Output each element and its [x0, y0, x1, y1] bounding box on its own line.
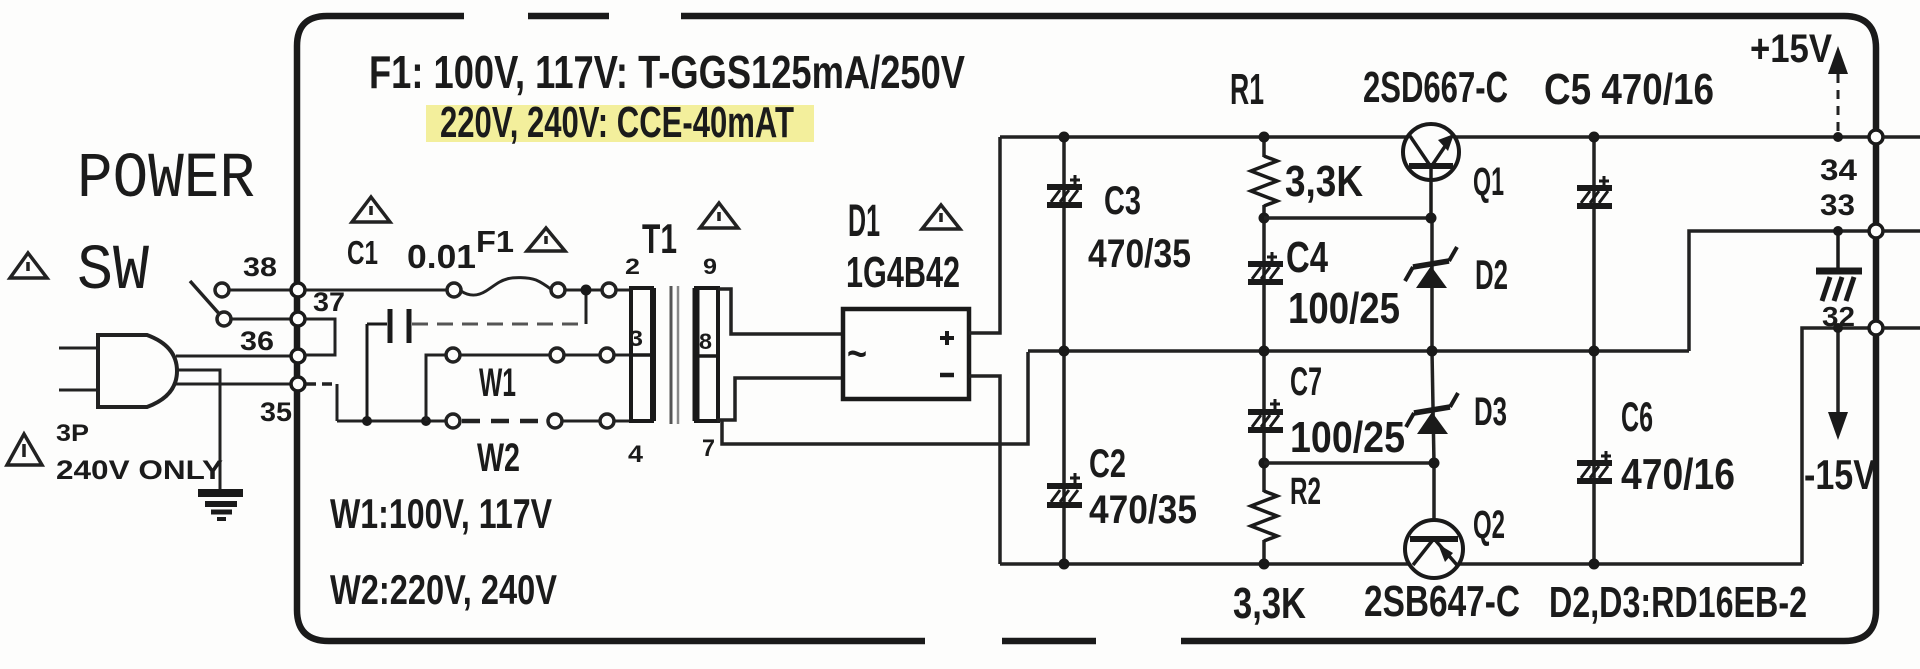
stub wire node 33 [1883, 229, 1920, 233]
svg-text:POWER: POWER [77, 144, 255, 216]
svg-text:C3: C3 [1104, 179, 1141, 223]
wire pin2 to primary [616, 289, 631, 292]
junction Q1 base [1426, 213, 1437, 224]
wire plug line2 to node 35 [176, 383, 291, 386]
svg-text:Q2: Q2 [1473, 503, 1505, 547]
svg-text:2SD667-C: 2SD667-C [1363, 63, 1508, 112]
T1 pin2 terminal [602, 283, 616, 297]
wire node35 jog down [306, 382, 337, 386]
wire T1 pin7 center tap [722, 352, 1028, 444]
C3/C2 column vertical [1062, 137, 1066, 564]
svg-text:C7: C7 [1290, 360, 1322, 404]
svg-text:35: 35 [260, 397, 292, 427]
T1 core line left [670, 286, 673, 424]
T1 secondary left heavy edge [693, 288, 700, 421]
plug prong upper [59, 347, 97, 350]
svg-text:~: ~ [847, 332, 867, 376]
transistor Q1 2SD667-C [1403, 124, 1459, 215]
winding W1 link wire [460, 354, 550, 357]
+15V arrow [1828, 46, 1848, 137]
svg-text:C5 470/16: C5 470/16 [1544, 65, 1714, 114]
T1 primary divider [631, 353, 652, 357]
svg-text:-15V: -15V [1804, 451, 1876, 498]
wire D1 minus output down to -rail [969, 376, 1000, 564]
border terminal node 35 [291, 377, 305, 391]
R1/C4/C7/R2 column vertical [1262, 137, 1266, 157]
svg-text:R1: R1 [1230, 65, 1264, 114]
fuse F1 terminal left [447, 283, 461, 297]
winding W1 wire to pin3 [564, 354, 600, 357]
capacitor C6 [1577, 451, 1612, 481]
svg-text:3: 3 [629, 326, 643, 351]
switch contact lower (node 37 side) [217, 312, 231, 326]
svg-text:32: 32 [1822, 301, 1855, 332]
T1 primary right heavy edge [650, 288, 656, 421]
plug prong lower [59, 389, 97, 392]
wire plug earth pin [177, 370, 220, 489]
T1 pin4 terminal [600, 414, 614, 428]
svg-text:470/35: 470/35 [1089, 488, 1197, 532]
svg-text:D1: D1 [848, 195, 880, 246]
power switch SW blade [190, 281, 222, 317]
+15V top rail [1000, 135, 1873, 139]
svg-text:SW: SW [77, 236, 150, 308]
warning triangle left of 3P [7, 434, 42, 465]
wire link nodes 37-36 [305, 319, 335, 355]
svg-text:3,3K: 3,3K [1285, 157, 1363, 206]
junction bottom rail C6 [1589, 559, 1600, 570]
fuse F1 wavy element [461, 278, 552, 296]
wire pin4 to primary [614, 420, 631, 423]
svg-text:2: 2 [625, 254, 640, 279]
junction C1 bottom [362, 416, 372, 426]
capacitor C5 [1577, 176, 1612, 206]
junction mid rail C3/C2 [1059, 346, 1070, 357]
chassis ground on node 33 [1816, 231, 1862, 301]
junction mid rail zeners [1427, 346, 1438, 357]
warning triangle above T1 [700, 203, 738, 228]
earth ground symbol [198, 493, 243, 519]
highlight band 220V/240V [426, 105, 814, 142]
svg-text:220V, 240V: CCE-40mAT: 220V, 240V: CCE-40mAT [440, 98, 794, 147]
svg-text:4: 4 [628, 441, 644, 468]
svg-text:0.01: 0.01 [407, 238, 476, 275]
junction 33 chassis gnd [1833, 226, 1843, 236]
resistor R1 [1251, 156, 1277, 206]
wire node38 to fuse [305, 289, 448, 292]
wire D1 plus output up to +rail [969, 137, 1000, 333]
svg-text:R2: R2 [1290, 471, 1321, 513]
junction fuse/C1 node [581, 285, 592, 296]
junction top rail R1 [1259, 132, 1270, 143]
border terminal node 36 [291, 349, 305, 363]
border terminal node 38 [291, 283, 305, 297]
svg-text:W2:220V, 240V: W2:220V, 240V [330, 566, 557, 613]
svg-text:Q1: Q1 [1473, 160, 1504, 204]
junction -15V arrow [1833, 323, 1843, 333]
dashed enclosure border [297, 16, 1876, 641]
node 32 wire [1802, 328, 1873, 564]
T1 secondary divider [696, 354, 718, 358]
svg-text:D3: D3 [1474, 390, 1507, 434]
border terminal node 37 [291, 312, 305, 326]
zener diode D3 [1406, 393, 1458, 434]
C5/C6 column vertical [1592, 137, 1596, 564]
junction mid rail C4/C7 [1259, 346, 1270, 357]
svg-text:7: 7 [702, 435, 715, 462]
svg-text:W1:100V, 117V: W1:100V, 117V [330, 490, 552, 537]
wire fuse to T1 pin2 [565, 289, 602, 292]
svg-text:36: 36 [240, 326, 274, 356]
winding W2 wire to pin4 [562, 420, 600, 423]
capacitor C3 [1047, 175, 1082, 205]
svg-text:C4: C4 [1286, 233, 1328, 282]
svg-text:+15V: +15V [1750, 27, 1832, 71]
svg-text:470/35: 470/35 [1088, 232, 1191, 276]
fuse F1 terminal right [551, 283, 565, 297]
svg-text:D2: D2 [1475, 251, 1508, 298]
wire bottom selector run [337, 420, 446, 423]
T1 secondary winding box [696, 288, 718, 421]
junction C7/R2/D3 row [1259, 458, 1270, 469]
winding W1 terminal mid [550, 348, 564, 362]
wire Q1 base row [1264, 216, 1431, 220]
stub wire node 34 [1883, 135, 1920, 139]
switch contact upper (node 38 side) [215, 283, 229, 297]
stub wire node 32 [1883, 326, 1920, 330]
wire C1 to fuse-out node (faded dash) [412, 323, 586, 326]
zener diode D2 [1405, 247, 1457, 288]
0V mid rail [1028, 349, 1689, 353]
svg-text:F1: F1 [476, 224, 514, 259]
D1 plus mark [940, 331, 954, 345]
border terminal 32 [1869, 321, 1883, 335]
Q1/D2/D3/Q2 column vertical [1430, 218, 1434, 351]
wire W1-left drop [426, 355, 446, 421]
svg-text:3,3K: 3,3K [1233, 579, 1306, 628]
junction top rail C5 [1589, 132, 1600, 143]
svg-text:9: 9 [703, 254, 717, 279]
wire C1 tap vertical [585, 290, 588, 324]
border terminal 34 [1869, 130, 1883, 144]
svg-text:W1: W1 [479, 361, 516, 405]
svg-text:100/25: 100/25 [1288, 284, 1400, 333]
bridge rectifier D1 box [843, 309, 969, 399]
capacitor C2 [1047, 473, 1082, 505]
svg-text:34: 34 [1820, 154, 1857, 187]
capacitor C1 [367, 309, 409, 421]
winding W2 terminal left [446, 414, 460, 428]
winding W2 terminal mid [548, 414, 562, 428]
warning triangle above C1 [352, 197, 390, 222]
junction W1 drop [421, 416, 431, 426]
svg-text:240V ONLY: 240V ONLY [56, 455, 223, 485]
junction +15V arrow on rail [1833, 132, 1843, 142]
wire D3 row [1264, 461, 1434, 465]
svg-text:1G4B42: 1G4B42 [846, 248, 960, 297]
transformer T1 primary winding box [631, 288, 652, 421]
svg-text:C6: C6 [1621, 393, 1653, 440]
warning triangle left of SW [10, 253, 47, 278]
wire plug line1 to node 36 [176, 355, 291, 358]
wire switch lower to border [231, 318, 292, 321]
warning triangle right of D1 [922, 205, 960, 229]
svg-text:470/16: 470/16 [1621, 450, 1735, 499]
wire T1 pin9 to D1 [718, 289, 843, 334]
warning triangle right of F1 [527, 228, 565, 251]
AC plug P1 [98, 335, 177, 407]
svg-text:F1: 100V, 117V: T-GGS125mA/250: F1: 100V, 117V: T-GGS125mA/250V [369, 46, 965, 98]
wire T1 pin8 to D1 [717, 378, 843, 420]
svg-text:D2,D3:RD16EB-2: D2,D3:RD16EB-2 [1549, 578, 1807, 627]
junction mid rail C5/C6 [1589, 346, 1600, 357]
svg-text:2SB647-C: 2SB647-C [1364, 577, 1520, 626]
svg-text:C1: C1 [347, 234, 378, 271]
junction D3 row [1429, 458, 1440, 469]
-15V arrow [1828, 328, 1848, 440]
node 33 wire [1689, 231, 1873, 351]
svg-text:W2: W2 [477, 436, 520, 480]
svg-text:100/25: 100/25 [1290, 413, 1405, 462]
T1 pin3 terminal [600, 348, 614, 362]
junction top rail C3 [1059, 132, 1070, 143]
junction bottom rail R2 [1259, 559, 1270, 570]
svg-text:8: 8 [699, 329, 712, 354]
capacitor C4 [1248, 252, 1283, 282]
D1 minus mark [940, 373, 954, 378]
transistor Q2 2SB647-C [1405, 520, 1463, 578]
T1 core line right [677, 286, 680, 424]
svg-text:33: 33 [1820, 189, 1855, 222]
winding W1 terminal left [446, 348, 460, 362]
wire pin3 to primary [614, 354, 631, 357]
junction R1/C4/Q1-base [1259, 213, 1270, 224]
resistor R2 [1251, 491, 1277, 541]
wire switch upper to border [229, 289, 292, 292]
svg-text:3P: 3P [56, 420, 89, 447]
junction bottom rail C2 [1059, 559, 1070, 570]
svg-text:T1: T1 [642, 215, 677, 262]
border terminal 33 [1869, 224, 1883, 238]
winding W2 dashed link [462, 419, 548, 424]
svg-text:C2: C2 [1089, 442, 1126, 486]
-15V bottom rail [1000, 562, 1802, 566]
svg-text:38: 38 [243, 252, 277, 282]
capacitor C7 [1248, 399, 1283, 430]
